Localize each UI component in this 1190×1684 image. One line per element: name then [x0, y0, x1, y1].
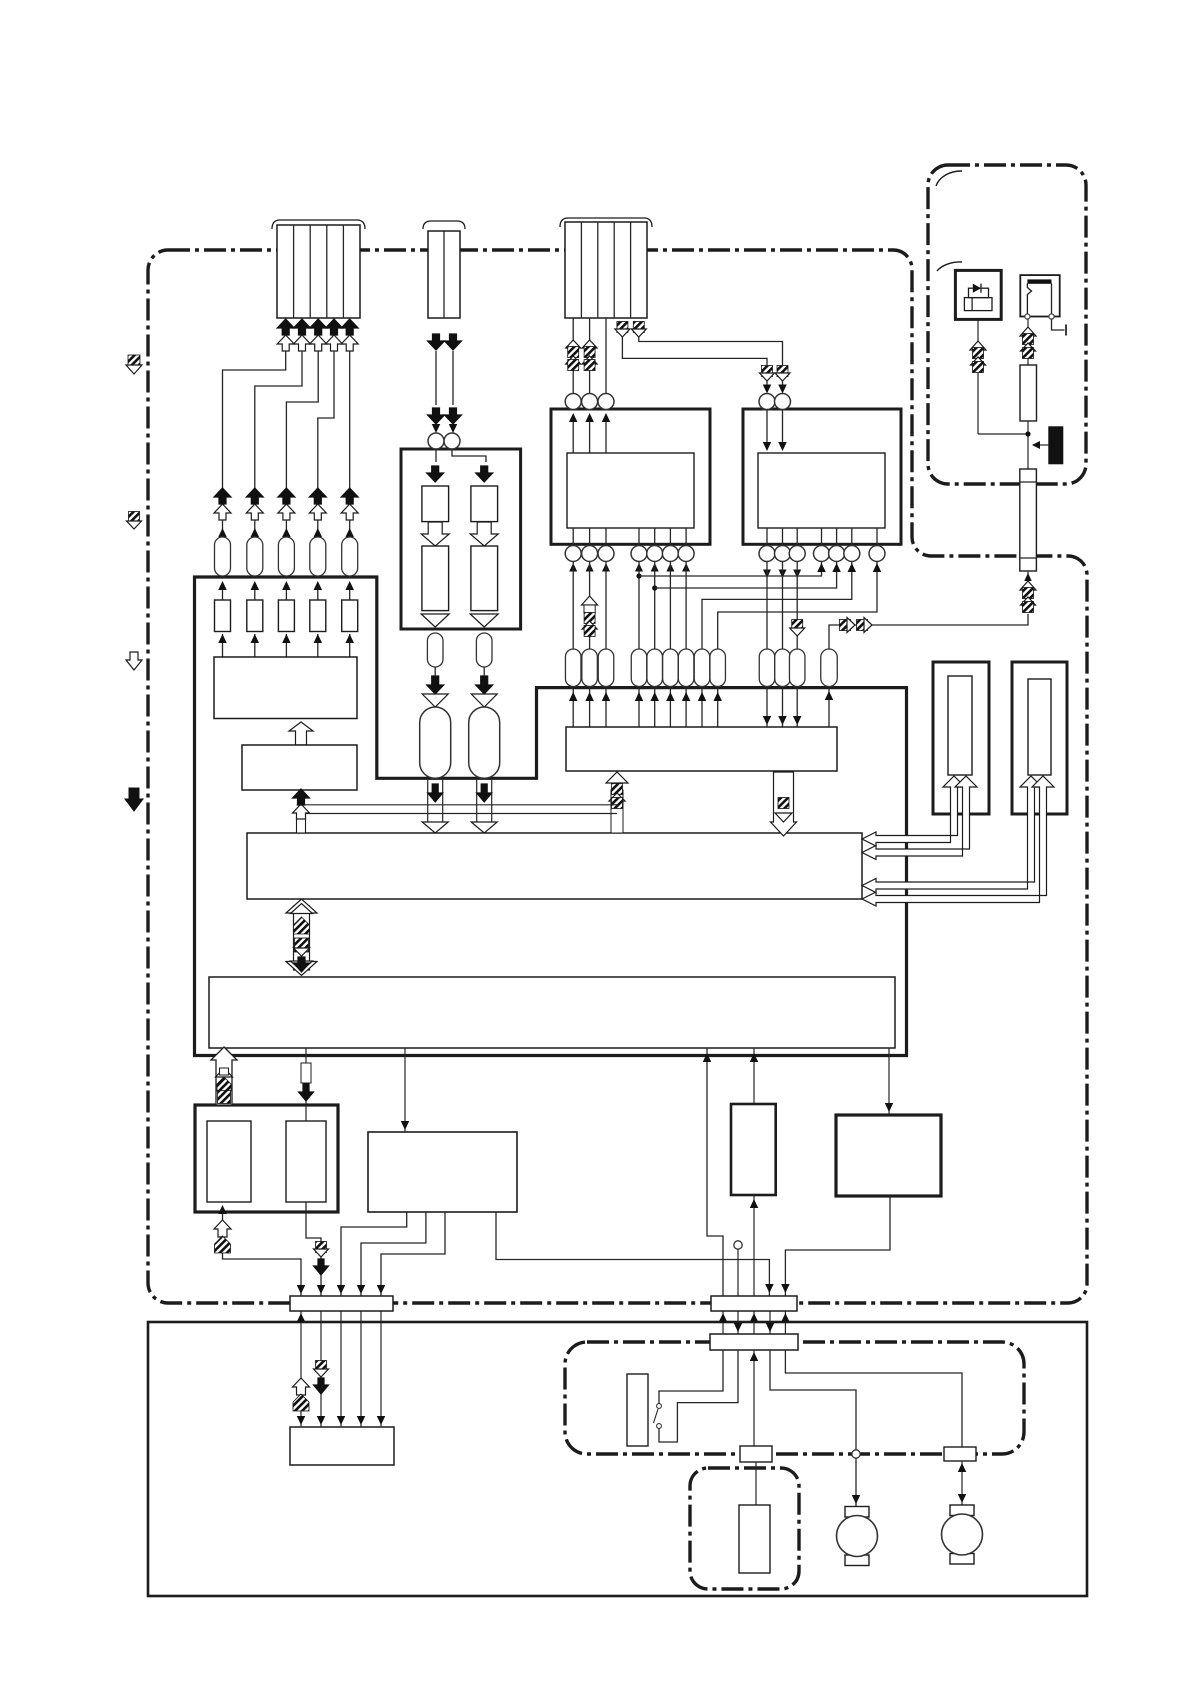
hatched arrow — [762, 366, 773, 377]
inner chevron — [216, 1068, 233, 1077]
arrowhead — [750, 1053, 759, 1062]
hatched arrow — [1023, 348, 1034, 359]
wire — [452, 424, 454, 430]
wire audio IC inner — [766, 528, 768, 546]
wire — [796, 687, 798, 728]
ferrite bead — [427, 633, 443, 667]
arrowhead — [778, 385, 787, 394]
wire CN3 pin1 — [572, 318, 574, 394]
hollow chevron — [470, 614, 498, 627]
chevron into bus box — [471, 822, 497, 833]
wire from P2 down — [1027, 319, 1029, 365]
black arrow in wide wire — [477, 784, 492, 802]
arrowhead into S1 — [357, 1285, 366, 1294]
hollow chevron up — [566, 340, 581, 348]
ferrite bead — [789, 649, 805, 687]
wire — [285, 583, 287, 600]
connector CN1 pin divider — [342, 225, 344, 318]
arrowhead — [734, 1323, 743, 1332]
inner chevron — [294, 948, 310, 956]
wire — [317, 520, 319, 536]
syscon microprocessor box C — [209, 977, 895, 1048]
ferrite bead FB2 — [247, 537, 263, 576]
mechanism dash-dot outline (bottom) — [565, 1342, 1024, 1454]
wire J to strip — [753, 1195, 755, 1296]
wire CN1 pin3 — [286, 351, 318, 488]
wire switch bottom contact to S2b — [659, 1350, 738, 1442]
arrowhead — [825, 691, 834, 700]
arrowhead — [763, 716, 772, 725]
wire — [317, 583, 319, 600]
pin circle — [444, 433, 460, 449]
converter hollow arrow — [421, 522, 449, 546]
black arrow — [476, 676, 493, 694]
arrowhead — [218, 634, 227, 643]
arrowhead — [314, 581, 323, 590]
arrowhead — [848, 563, 857, 572]
wire — [782, 381, 784, 390]
arrowhead into S1 — [377, 1285, 386, 1294]
arrowhead — [781, 1313, 790, 1322]
wire E to S1 b — [361, 1212, 426, 1296]
wire cross to audio IC — [718, 562, 877, 650]
black arrow — [314, 1259, 329, 1275]
CN1 pin2 hollow arrow — [294, 335, 311, 351]
hatched arrow — [584, 360, 595, 371]
arrowhead — [251, 528, 259, 537]
hollow arrow box B to R1 a — [862, 776, 965, 846]
wire D to strip S1 — [223, 1212, 302, 1296]
CN1 pin5 hollow arrow — [341, 335, 358, 351]
converter element tall — [471, 546, 498, 611]
arrowhead — [377, 1416, 386, 1425]
wire S3 to cassette block — [755, 1462, 757, 1505]
connector CN2 bracket — [423, 221, 465, 229]
converter element — [422, 486, 449, 522]
arrowhead — [763, 385, 772, 394]
arrowhead — [585, 692, 594, 701]
arrowhead — [602, 692, 611, 701]
hollow+hatch arrow combo on wire — [582, 596, 598, 605]
arrowhead below circle — [779, 570, 787, 579]
connector CN3 (5-pin, top) — [565, 222, 647, 318]
arrowhead — [345, 528, 354, 537]
wire video IC inner — [638, 528, 640, 546]
key input block — [214, 657, 357, 719]
hatched arrows right on charge line — [840, 620, 851, 631]
CN1 pin5 solid arrow — [341, 319, 358, 335]
hatched arrow — [316, 1242, 327, 1253]
hatched down arrow — [792, 620, 803, 631]
connector CN3 pin divider — [613, 222, 615, 318]
arrowhead below circle — [682, 563, 690, 572]
large ferrite bead — [469, 707, 500, 778]
node on mechanism border — [852, 1450, 860, 1458]
mode switch thick box D — [195, 1105, 338, 1212]
wire CN3 pin4 to audio IC — [622, 337, 767, 365]
video IC bottom pin circle 6 — [662, 546, 678, 562]
arrowhead below circle — [569, 563, 577, 572]
arrowhead — [682, 692, 691, 701]
wire — [589, 630, 591, 649]
hatched square in arrow — [778, 798, 789, 809]
wire audio IC inner — [836, 528, 838, 546]
wire C to D right — [305, 1048, 307, 1121]
LCD driver box E — [368, 1132, 517, 1212]
wire inside audio IC — [782, 410, 784, 450]
ferrite bead — [775, 649, 791, 687]
filter R2 — [247, 600, 263, 632]
cassette sensor box R2 — [1012, 662, 1067, 814]
wire audio IC inner — [821, 528, 823, 546]
arrowhead — [635, 692, 644, 701]
P2 contact — [1049, 314, 1054, 319]
wire audio IC down — [782, 562, 784, 650]
cassette sensor box R1 — [933, 662, 989, 814]
wire test point — [737, 1249, 739, 1296]
mid chain black arrow right — [445, 408, 462, 424]
wire — [434, 667, 436, 676]
wire — [349, 634, 351, 657]
wire — [222, 520, 224, 536]
wire inside audio IC — [766, 410, 768, 450]
arrowhead — [432, 424, 441, 433]
wire — [605, 687, 607, 728]
wire CN3 pin2 — [589, 318, 591, 394]
wire — [654, 562, 656, 650]
wire below connector — [1027, 571, 1029, 580]
ferrite bead FB4 — [310, 537, 326, 576]
wire video IC inner — [654, 528, 656, 546]
connector CN3 bracket — [560, 218, 652, 227]
wire S2b to S3 — [753, 1350, 755, 1446]
wire — [669, 562, 671, 650]
P2 tip wire — [1052, 319, 1065, 330]
audio IC bottom pin circle 3 — [789, 546, 805, 562]
wire switch top contact to S2b — [659, 1350, 723, 1404]
switch body — [627, 1374, 648, 1446]
wire audio IC down — [766, 562, 768, 650]
P2 black bar — [1027, 279, 1051, 283]
bus double line — [297, 804, 617, 806]
CN2 black arrow left — [428, 334, 445, 350]
wire E to S1 c — [381, 1212, 445, 1296]
arrowhead — [345, 634, 354, 643]
border arrow hatched 1 — [128, 355, 140, 367]
connector CN3 pin divider — [630, 222, 632, 318]
strip S3 — [740, 1446, 772, 1462]
ferrite bead — [598, 649, 614, 687]
arrowhead — [1024, 573, 1032, 581]
large hollow up arrow C to D — [211, 1047, 237, 1105]
arrowhead — [337, 1416, 346, 1425]
wire S1 to F — [320, 1311, 322, 1427]
wire S4 to capstan motor — [961, 1461, 963, 1505]
arrowhead — [345, 581, 354, 590]
ferrite bead — [631, 649, 647, 687]
wire — [589, 562, 591, 597]
arrowhead below circle — [793, 570, 801, 579]
wire D2 to strip S1 — [306, 1202, 321, 1296]
wire video IC inner — [605, 528, 607, 546]
arrowhead — [885, 1103, 894, 1112]
arrowhead — [793, 716, 802, 725]
hollow down arrow with black — [301, 1063, 311, 1083]
P1 battery icon lower — [964, 298, 992, 311]
hollow chevron — [471, 694, 497, 707]
CN1 pin3 hollow arrow — [310, 335, 327, 351]
arrowhead into S1 — [297, 1285, 306, 1294]
junction — [1025, 431, 1030, 436]
wire — [766, 381, 768, 390]
hatched arrow — [1023, 602, 1034, 613]
arrowhead into D — [218, 1205, 227, 1214]
wire audio IC inner — [796, 528, 798, 546]
DC jack icon box P2 — [1020, 275, 1059, 316]
switch lever — [654, 1409, 659, 1423]
arc mark on adaptor left edge — [937, 262, 962, 271]
R2 inner element — [1028, 679, 1051, 775]
bottom chassis solid box — [148, 1322, 1087, 1596]
switch contact bottom — [657, 1424, 662, 1429]
chevron into bus box — [422, 822, 448, 833]
hatched arrow inside — [217, 1077, 231, 1091]
wire audio IC inner — [876, 528, 878, 546]
converter black arrow — [427, 466, 444, 482]
CN1 pin4 solid arrow — [326, 319, 343, 335]
arrowhead — [817, 563, 826, 572]
wire — [285, 634, 287, 657]
arrowhead — [750, 1199, 759, 1208]
wide supply wire — [427, 778, 429, 823]
arrowhead — [314, 528, 323, 537]
P2 contact — [1025, 314, 1030, 319]
audio out box K — [836, 1115, 941, 1196]
connector CN3 pin divider — [580, 222, 582, 318]
left chain 3 solid arrow — [278, 488, 295, 504]
hollow chevron — [1020, 327, 1036, 336]
audio IC top pin circle — [759, 394, 775, 410]
wire E to S1 a — [341, 1212, 407, 1296]
arrowhead — [297, 1416, 306, 1425]
wire — [589, 687, 591, 728]
strip S2b — [710, 1334, 798, 1350]
wire S1 to F — [380, 1311, 382, 1427]
outer chevron inner line — [291, 961, 313, 971]
wire connector to junction — [1027, 421, 1029, 469]
audio IC bottom pin circle 7 — [869, 546, 885, 562]
servo block A — [566, 727, 837, 771]
hatched arrow — [973, 348, 984, 359]
DC-DC converter thick box — [401, 449, 521, 629]
arrowhead — [585, 413, 594, 422]
wire — [483, 667, 485, 676]
hatched arrow CN3 pin4 — [617, 322, 628, 333]
wire audio IC inner — [851, 528, 853, 546]
audio IC bottom pin circle 6 — [844, 546, 860, 562]
wire — [766, 687, 768, 728]
CN1 pin1 solid arrow — [277, 319, 294, 335]
P1 battery icon upper — [969, 288, 989, 297]
bus combo arrow box B to box C — [294, 906, 310, 970]
CN2 black arrow right — [445, 334, 462, 350]
arrowhead — [282, 528, 291, 537]
wire — [222, 583, 224, 600]
hatched arrow CN3 pin5 — [633, 322, 644, 333]
hatched arrow — [777, 366, 788, 377]
wire inside video IC — [605, 415, 607, 453]
connector CN2 (2-pin, top middle) — [428, 231, 460, 318]
filter R3 — [278, 600, 294, 632]
CN1 pin2 solid arrow — [294, 319, 311, 335]
P1 diode — [973, 284, 981, 293]
audio IC bottom pin circle 2 — [775, 546, 791, 562]
wire — [222, 634, 224, 657]
black arrow — [427, 676, 444, 694]
filter R4 — [310, 600, 326, 632]
wire — [796, 636, 798, 649]
CN2 wire right — [452, 351, 454, 405]
R1 inner element — [948, 676, 972, 775]
wire — [572, 562, 574, 650]
wire E to S2a — [496, 1212, 769, 1296]
arrowhead — [778, 716, 787, 725]
arrowhead below circle — [666, 563, 674, 572]
arrowhead — [766, 1323, 775, 1332]
arrowhead — [666, 692, 675, 701]
audio IC bottom pin circle 4 — [814, 546, 830, 562]
wire — [654, 687, 656, 728]
wire S1 to F — [340, 1311, 342, 1427]
wire video IC inner — [572, 528, 574, 546]
left chain 1 solid arrow — [214, 488, 231, 504]
connector divider — [1020, 557, 1037, 559]
wire — [254, 583, 256, 600]
arrowhead below circle — [651, 563, 659, 572]
arrowhead — [282, 581, 291, 590]
hollow chevron up — [582, 340, 597, 348]
arrowhead below circle — [602, 563, 610, 572]
battery sense ferrite bead — [821, 649, 838, 687]
wire — [349, 520, 351, 536]
P1 diode bar — [980, 284, 982, 293]
audio IC top pin circle — [775, 394, 791, 410]
arrowhead — [778, 442, 787, 451]
video IC inner block — [567, 453, 694, 528]
wire C to D left — [223, 1048, 225, 1105]
AC adaptor icon thick box P1 — [955, 270, 1001, 319]
EVF box J — [731, 1104, 776, 1195]
arrowhead — [401, 1121, 410, 1130]
left chain 5 hollow arrow — [341, 504, 358, 520]
hollow chevron — [421, 614, 449, 627]
border arrow black — [125, 788, 143, 811]
video IC bottom pin circle 3 — [598, 546, 614, 562]
arrowhead — [750, 1313, 759, 1322]
wire cross to audio IC — [639, 562, 822, 577]
wire K to strip — [785, 1196, 890, 1296]
P1 battery divider — [971, 298, 973, 311]
hatched arrow — [973, 362, 984, 373]
wire S1 to F — [300, 1311, 302, 1427]
test point — [734, 1241, 742, 1249]
wire video IC inner — [589, 528, 591, 546]
black arrow in wide wire — [428, 784, 443, 802]
pin circle — [428, 433, 444, 449]
hatched arrow — [568, 360, 579, 371]
board-to-board connector (adaptor) — [1020, 469, 1037, 571]
wire — [435, 424, 437, 430]
main circuit board dash-dot outline — [148, 250, 1087, 1303]
arc mark near adaptor corner — [936, 171, 962, 186]
arrowhead — [832, 563, 841, 572]
border arrow hatched 2 — [129, 512, 140, 523]
wire S2a to S2b — [769, 1311, 771, 1334]
hatched arrow — [584, 347, 595, 358]
hatched arrow — [1023, 334, 1034, 345]
video IC top pin circle 1 — [565, 394, 581, 410]
video IC bottom pin circle 2 — [582, 546, 598, 562]
left chain 2 hollow arrow — [246, 504, 263, 520]
arrowhead — [852, 1495, 861, 1504]
ferrite bead — [694, 649, 710, 687]
wire video IC inner — [669, 528, 671, 546]
audio IC inner block — [758, 453, 885, 528]
system control IC thick outline — [195, 577, 907, 1056]
arrowhead — [218, 581, 227, 590]
ferrite bead — [710, 649, 726, 687]
wire inside video IC — [589, 415, 591, 453]
wire — [254, 520, 256, 536]
video IC bottom pin circle 4 — [631, 546, 647, 562]
video IC bottom pin circle 7 — [678, 546, 694, 562]
cassette block inner rect — [739, 1505, 770, 1573]
operation unit box F — [290, 1427, 394, 1465]
arrowhead — [357, 1416, 366, 1425]
wire — [669, 687, 671, 728]
wire CN1 pin5 — [349, 351, 351, 488]
wide supply wire — [476, 778, 478, 823]
video IC bottom pin circle 1 — [565, 546, 581, 562]
CN2 wire left — [435, 351, 437, 405]
wire S2b to S4 — [785, 1350, 962, 1447]
hollow down arrow block A to box B — [771, 772, 797, 836]
arrowhead — [958, 1463, 967, 1472]
arrowhead below circle — [635, 563, 643, 572]
wire — [572, 687, 574, 728]
audio IC bottom pin circle 5 — [829, 546, 845, 562]
hatched square inside bus combo — [295, 938, 309, 952]
wire S1 to F — [360, 1311, 362, 1427]
wire — [317, 634, 319, 657]
battery pack — [1048, 426, 1063, 464]
black arrow into sub block — [293, 789, 310, 805]
bus interface box B — [247, 833, 862, 899]
wire — [638, 562, 640, 650]
wire audio IC down — [796, 562, 798, 621]
video IC thick box — [551, 409, 710, 544]
arrowhead — [650, 692, 659, 701]
wire — [254, 634, 256, 657]
hollow chevron — [1020, 581, 1036, 590]
wire cross to audio IC — [702, 562, 852, 650]
arrowhead — [569, 692, 578, 701]
CN1 pin3 solid arrow — [310, 319, 327, 335]
D inner element 1 — [207, 1121, 251, 1202]
wire — [605, 562, 607, 650]
arrowhead — [282, 634, 291, 643]
ferrite bead — [476, 633, 492, 667]
